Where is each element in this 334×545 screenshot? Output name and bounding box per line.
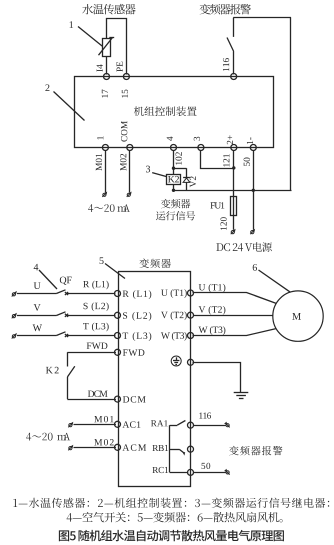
- label: 变频器 inverter title: [139, 259, 170, 269]
- pin label W(T3): [161, 332, 187, 341]
- net label 116 out: [199, 413, 211, 419]
- pin label 17: [102, 89, 108, 97]
- caption line 2: [67, 512, 283, 523]
- caption line 1: [13, 498, 329, 508]
- terminal 2+: [231, 145, 237, 151]
- pin label COM: [121, 121, 127, 142]
- ground symbol: [234, 392, 249, 394]
- junction: [252, 189, 255, 192]
- net label M02: [120, 154, 126, 171]
- label V: [34, 304, 41, 311]
- net label M01: [96, 154, 102, 171]
- leader line for 6: [259, 270, 291, 292]
- wire M01 in: [68, 423, 72, 427]
- wire: bottom node to right rail: [174, 190, 292, 192]
- pin label I4: [97, 64, 103, 71]
- PE earth symbol in box: [171, 356, 181, 366]
- label V2: [190, 176, 196, 187]
- pin label U(T1): [161, 289, 187, 298]
- wire V(T2) to motor: [193, 315, 273, 317]
- label 3 leader text: [146, 166, 150, 173]
- wire DCM: [67, 399, 116, 401]
- wire U(T1) to motor: [193, 293, 277, 304]
- terminal ACM: [115, 444, 121, 450]
- wire 116 out: [193, 425, 226, 427]
- breaker QF pole S: [56, 312, 65, 316]
- net label 120: [220, 217, 226, 230]
- terminal PE: [123, 74, 129, 80]
- figure title: [59, 530, 284, 541]
- label FU1: [210, 202, 224, 208]
- label 4: [34, 264, 39, 271]
- label W: [33, 325, 42, 332]
- unit control device box (2): [75, 77, 274, 148]
- wire phase R left: [17, 293, 56, 295]
- wire label R(L1): [83, 281, 108, 290]
- wire: right rail: [290, 17, 292, 190]
- junction: [172, 167, 175, 170]
- pin label ACM: [122, 444, 146, 450]
- wire phase T left: [17, 335, 56, 337]
- pin label R(L1): [123, 290, 152, 299]
- pin label 2+: [227, 135, 233, 144]
- label: water temperature sensor text 水温传感器: [82, 4, 135, 15]
- wire M02: [129, 150, 131, 192]
- pin label DCM: [123, 396, 146, 402]
- label M02 net: [94, 439, 113, 445]
- pin label 3: [194, 137, 200, 141]
- label U: [34, 282, 41, 289]
- pin label RC1: [152, 467, 168, 473]
- label FWD net: [87, 343, 108, 349]
- leader line for 1: [78, 27, 103, 47]
- wire 50 out: [193, 472, 226, 474]
- wire FWD: [67, 352, 116, 354]
- source arrow V: [12, 314, 16, 318]
- net label 116: [223, 58, 229, 71]
- label 5: [100, 257, 104, 264]
- terminal U(T1): [188, 290, 194, 296]
- diode V2 branch: [174, 168, 187, 170]
- terminal 3: [198, 145, 204, 151]
- pin label PE: [117, 62, 123, 72]
- terminal COM: [127, 145, 133, 151]
- label: 变频器报警 inverter alarm (right): [229, 446, 282, 456]
- terminal V(T2): [188, 312, 194, 318]
- wire label T(L3): [83, 323, 109, 332]
- label K2 contact: [46, 367, 59, 374]
- motor M (6): [273, 291, 323, 341]
- terminal DCM: [115, 396, 121, 402]
- label: 4-20 mA input (numbers): [26, 433, 52, 441]
- label: 4-20 mA output (unit): [117, 204, 130, 211]
- label: 运行信号 run signal: [156, 211, 195, 220]
- pin label RA1: [151, 420, 168, 426]
- terminal PE inverter: [188, 359, 194, 365]
- leader line for 5: [105, 264, 125, 279]
- wire: sensor loop I4/PE: [107, 19, 127, 75]
- wire 120: [233, 216, 235, 230]
- terminal RA1/116: [188, 422, 194, 428]
- label M01 net: [94, 416, 113, 422]
- label: 4-20 mA output (numbers): [88, 204, 114, 212]
- terminal I16: [231, 74, 237, 80]
- wire phase T right: [67, 335, 116, 337]
- pin label RB1: [152, 445, 168, 451]
- terminal 1: [102, 145, 108, 151]
- leader line for 4: [39, 270, 57, 289]
- terminal RC1/50: [188, 469, 194, 475]
- wire: alarm top: [233, 17, 291, 19]
- junction: [172, 189, 175, 192]
- contact K2 (NO): [67, 352, 69, 366]
- wire label U (T1): [199, 284, 226, 293]
- wire phase R right: [67, 293, 116, 295]
- pin label 1: [97, 136, 103, 139]
- terminal RB1: [188, 446, 194, 452]
- pin label FWD: [123, 349, 145, 355]
- wire phase S left: [17, 315, 56, 317]
- label: 4-20 mA input (unit): [57, 433, 70, 440]
- terminal R(L1): [115, 291, 121, 297]
- terminal W(T3): [188, 333, 194, 339]
- contact RA1 (NO): [170, 425, 178, 427]
- fuse FU1: [231, 197, 237, 216]
- label 2: [45, 84, 49, 91]
- net label 121: [223, 154, 229, 167]
- pin label 1-: [247, 137, 253, 144]
- pin label V(T2): [161, 311, 187, 320]
- wire: terminal 3 elbow to 121: [201, 151, 235, 169]
- wire M02 in: [68, 446, 72, 450]
- wire 50 down: [253, 150, 255, 230]
- wire 102: [173, 150, 175, 174]
- breaker QF pole R: [56, 290, 65, 294]
- terminal AC1: [115, 421, 121, 427]
- label: 变频器 (inverter) caption for K2: [161, 199, 190, 209]
- source arrow U: [12, 292, 16, 296]
- net label 50 out: [202, 463, 211, 469]
- wire PE to ground: [193, 363, 241, 393]
- wire phase S right: [67, 315, 116, 317]
- leader line for 2: [54, 92, 85, 121]
- pin label S(L2): [123, 312, 151, 321]
- label 1: [70, 21, 74, 28]
- wire K2 bottom: [173, 184, 175, 190]
- breaker QF pole T: [56, 332, 65, 336]
- label: inverter alarm text 变频器报警: [200, 4, 251, 15]
- wire RC1: [170, 472, 189, 474]
- terminal S(L2): [115, 312, 121, 318]
- net label 50: [244, 158, 250, 166]
- wire M01: [105, 150, 107, 192]
- contact RB1 blade: [170, 449, 180, 451]
- terminal I4: [104, 74, 110, 80]
- wire label V (T2): [199, 306, 226, 315]
- source arrow W: [12, 334, 16, 338]
- sensor RT thermistor (1): [103, 39, 111, 57]
- label K2: [168, 176, 179, 182]
- terminal 1-: [250, 145, 256, 151]
- pin label T(L3): [123, 332, 152, 341]
- terminal T(L3): [115, 333, 121, 339]
- terminal FWD: [115, 349, 121, 355]
- label DCM net: [88, 391, 108, 397]
- label QF: [60, 277, 72, 285]
- pin label 15: [122, 90, 128, 98]
- leader line for 3: [152, 173, 166, 177]
- contact: inverter alarm NO contact I16: [233, 18, 235, 37]
- wire label W (T3): [199, 326, 226, 335]
- pin label AC1: [122, 421, 140, 427]
- junction: [232, 166, 235, 169]
- inverter box (5): [119, 272, 191, 487]
- wire W(T3) to motor: [193, 329, 277, 336]
- relay bracket: [169, 425, 171, 472]
- label 6: [253, 264, 257, 271]
- label: DC 24 V power 电源: [216, 242, 272, 252]
- terminal 4: [171, 145, 177, 151]
- pin label 4: [167, 136, 173, 140]
- net label 102: [176, 152, 182, 165]
- wire 121 upper: [233, 150, 235, 196]
- wire label S(L2): [84, 302, 109, 311]
- relay coil K2: [167, 175, 181, 185]
- label: 机组控制装置 unit control device: [134, 106, 197, 116]
